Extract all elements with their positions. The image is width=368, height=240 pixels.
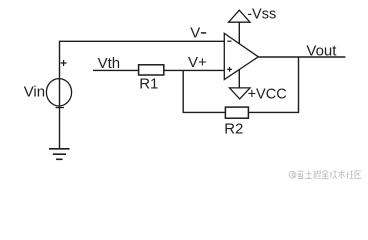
ground xyxy=(49,149,70,160)
op-amp non-inverting input marker + xyxy=(227,67,232,72)
resistor R1 xyxy=(139,65,164,75)
svg-text:V+: V+ xyxy=(188,54,207,71)
power -Vss xyxy=(229,10,250,44)
op-amp inverting input marker - xyxy=(227,40,231,42)
svg-text:R1: R1 xyxy=(139,75,158,92)
svg-text:Vout: Vout xyxy=(306,42,337,59)
voltage source Vin xyxy=(46,79,71,106)
watermark xyxy=(289,170,361,179)
svg-text:-Vss: -Vss xyxy=(247,6,276,22)
svg-text:V: V xyxy=(190,25,200,42)
svg-text:Vin: Vin xyxy=(24,83,45,100)
svg-text:R2: R2 xyxy=(224,121,243,138)
wire: R2 to output node xyxy=(248,57,298,112)
polarity - of Vin xyxy=(56,107,65,109)
svg-text:Vth: Vth xyxy=(98,55,121,72)
power +VCC xyxy=(230,70,251,99)
wire: op-amp output to Vout xyxy=(258,56,345,58)
resistor R2 xyxy=(225,107,248,118)
op-amp U1 xyxy=(224,33,258,79)
wire: top net from Vin node to op-amp inverting input xyxy=(60,41,225,148)
wire: V+ node junction down to R2 xyxy=(183,70,225,112)
wire: R1 to op-amp non-inverting input xyxy=(164,69,225,71)
wire: Vth input stub to R1 xyxy=(93,69,139,71)
polarity + of Vin xyxy=(61,60,67,66)
svg-text:+VCC: +VCC xyxy=(248,87,287,103)
